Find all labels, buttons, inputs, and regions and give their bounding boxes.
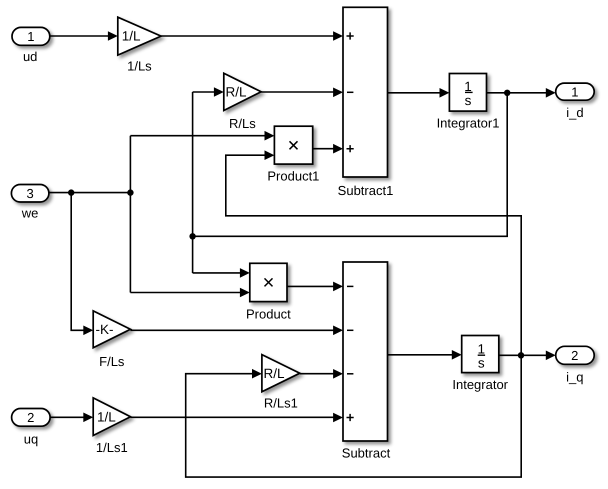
svg-text:R/Ls1: R/Ls1 <box>264 396 298 411</box>
svg-text:s: s <box>465 93 472 108</box>
svg-text:1/Ls1: 1/Ls1 <box>96 440 128 455</box>
svg-text:1: 1 <box>464 79 472 94</box>
svg-text:1/Ls: 1/Ls <box>127 59 152 74</box>
svg-text:1/L: 1/L <box>122 29 141 44</box>
svg-text:1/L: 1/L <box>97 409 116 424</box>
svg-text:R/L: R/L <box>264 366 286 381</box>
svg-text:uq: uq <box>24 432 38 447</box>
svg-text:R/Ls: R/Ls <box>229 116 256 131</box>
svg-text:i_d: i_d <box>566 105 583 120</box>
svg-text:Integrator: Integrator <box>452 377 508 392</box>
svg-text:1: 1 <box>477 342 485 357</box>
svg-text:1: 1 <box>571 84 578 99</box>
svg-text:F/Ls: F/Ls <box>99 354 125 369</box>
svg-text:we: we <box>21 206 39 221</box>
svg-text:Product1: Product1 <box>267 168 319 183</box>
svg-text:s: s <box>478 356 485 371</box>
svg-text:ud: ud <box>23 49 37 64</box>
svg-text:Integrator1: Integrator1 <box>437 116 500 131</box>
svg-text:i_q: i_q <box>566 369 583 384</box>
svg-text:2: 2 <box>571 348 578 363</box>
svg-text:3: 3 <box>26 186 33 201</box>
svg-text:-K-: -K- <box>96 322 114 337</box>
svg-text:2: 2 <box>27 410 34 425</box>
svg-text:Product: Product <box>246 307 291 322</box>
svg-text:R/L: R/L <box>226 84 248 99</box>
svg-text:1: 1 <box>27 29 34 44</box>
svg-text:Subtract1: Subtract1 <box>338 183 394 198</box>
svg-text:Subtract: Subtract <box>342 446 391 461</box>
